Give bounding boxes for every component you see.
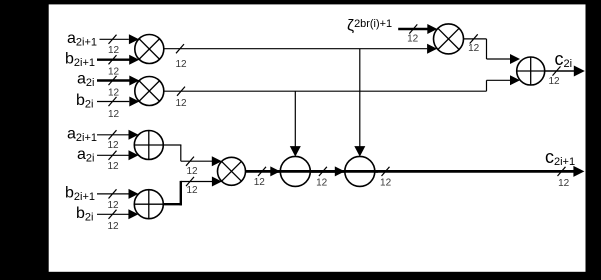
svg-text:12: 12 [108,66,120,77]
svg-text:12: 12 [407,34,419,45]
svg-text:12: 12 [548,76,560,87]
svg-text:12: 12 [254,177,266,188]
svg-text:12: 12 [186,185,198,196]
svg-text:12: 12 [108,88,120,99]
svg-text:12: 12 [175,98,187,109]
svg-text:12: 12 [558,178,570,189]
svg-text:12: 12 [107,161,119,172]
svg-text:12: 12 [108,45,120,56]
svg-text:12: 12 [107,200,119,211]
svg-text:12: 12 [175,59,187,70]
svg-text:12: 12 [380,178,392,189]
svg-text:12: 12 [107,221,119,232]
svg-text:12: 12 [316,178,328,189]
svg-text:12: 12 [186,166,198,177]
svg-text:12: 12 [468,43,480,54]
svg-text:12: 12 [108,109,120,120]
svg-text:12: 12 [107,140,119,151]
